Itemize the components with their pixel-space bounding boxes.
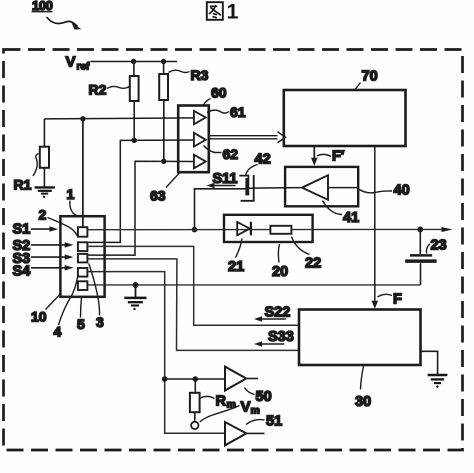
node junction left — [162, 376, 168, 382]
svg-text:21: 21 — [228, 259, 244, 275]
label S33 with arrow — [254, 329, 294, 347]
buffer 61 — [194, 111, 206, 124]
svg-text:R1: R1 — [14, 177, 32, 193]
svg-text:20: 20 — [272, 264, 288, 280]
svg-text:5: 5 — [77, 316, 85, 332]
label 5 — [77, 297, 85, 332]
label 42 — [246, 151, 271, 175]
label 62 — [204, 146, 239, 163]
wire S22 (pin 2 to block 30) — [87, 246, 299, 325]
svg-text:S1: S1 — [13, 222, 31, 238]
label 3 — [89, 264, 104, 330]
processing block 30 — [299, 310, 421, 410]
svg-text:V: V — [66, 54, 76, 71]
svg-text:F: F — [393, 292, 402, 308]
label 63 — [150, 173, 180, 204]
label 21 — [228, 239, 244, 275]
svg-text:40: 40 — [394, 183, 410, 199]
capacitor 23 — [405, 229, 436, 285]
label 4 — [54, 278, 78, 340]
svg-text:1: 1 — [67, 186, 75, 202]
pin contact 1 — [78, 227, 88, 237]
label Rm — [201, 393, 236, 410]
svg-text:63: 63 — [150, 188, 166, 204]
driver block 40 — [285, 167, 358, 206]
amplifier 41 (left pointing) — [285, 175, 358, 200]
svg-text:3: 3 — [96, 314, 104, 330]
ground (right of block 30) — [428, 375, 448, 388]
svg-text:10: 10 — [31, 308, 47, 324]
wire pin 4 to buffers — [87, 272, 225, 434]
label 41 — [323, 201, 360, 227]
svg-text:m: m — [251, 405, 260, 417]
svg-text:R: R — [216, 393, 227, 409]
svg-text:22: 22 — [305, 255, 321, 271]
resistor 20 — [270, 226, 291, 234]
label 10 — [31, 295, 60, 325]
label S2 with arrow — [13, 238, 74, 254]
svg-text:V: V — [241, 398, 251, 415]
label 50 — [245, 388, 272, 405]
label S22 with arrow — [254, 304, 290, 322]
pin contact 3 — [78, 254, 88, 263]
resistor R1 — [14, 119, 50, 193]
buffer 62 — [194, 133, 206, 147]
svg-text:S22: S22 — [265, 304, 291, 320]
label 2 — [39, 207, 78, 237]
label 23 — [426, 237, 446, 253]
svg-text:61: 61 — [230, 104, 246, 120]
signal F arrow (70 to 30) — [372, 146, 403, 309]
svg-text:30: 30 — [355, 394, 371, 410]
svg-text:S4: S4 — [13, 263, 31, 279]
label 20 — [272, 244, 288, 280]
pin contact 2 — [78, 242, 88, 251]
wire: amplifier 41 output to capacitor 42 — [247, 187, 285, 189]
wire: S11 injection (cap 42 to S1 line) — [195, 189, 247, 230]
ground (below R1) — [35, 187, 55, 198]
label S4 with arrow — [13, 263, 74, 279]
label 60 — [204, 85, 227, 106]
wire: Vref/R1 node to buffer 61 input — [44, 116, 194, 121]
filter block 22 — [224, 215, 313, 242]
label 22 — [292, 237, 322, 272]
label 1 — [67, 186, 79, 216]
title 图1 (hanzi drawn as strokes) — [207, 0, 239, 24]
wire S33 (pin 3 to block 30) — [87, 259, 299, 351]
svg-text:ref: ref — [77, 62, 90, 73]
wire: node to connector pin 1 (S1 column) — [82, 119, 84, 227]
label 100 (figure reference numeral) — [32, 0, 82, 30]
node S11 junction — [192, 227, 198, 233]
logic block 70 — [284, 69, 406, 147]
wire branch to buffer 50 — [165, 378, 225, 380]
output arrowhead right — [442, 227, 453, 232]
node junction Rm — [193, 376, 199, 382]
label 51 — [246, 413, 282, 429]
wire S1 line (pin 1 to output arrow) — [87, 228, 442, 230]
svg-text:70: 70 — [362, 69, 378, 85]
svg-text:4: 4 — [54, 323, 62, 339]
buffer 63 — [194, 155, 206, 169]
resistor Rm — [190, 379, 200, 422]
wire block 30 to ground — [421, 351, 438, 374]
svg-text:F′: F′ — [332, 149, 345, 165]
wire: buffer 62 input line — [87, 138, 193, 243]
node capacitor 23 tap — [417, 227, 423, 233]
label Vm — [200, 398, 260, 422]
svg-text:1: 1 — [227, 0, 239, 24]
ground (center, below pin-5 line) — [124, 285, 146, 310]
svg-text:2: 2 — [39, 207, 47, 223]
svg-text:51: 51 — [266, 413, 282, 429]
resistor R2 — [89, 62, 139, 141]
wire ground line (pin 5 to capacitor 23) — [87, 284, 420, 286]
svg-text:60: 60 — [211, 85, 227, 101]
signal F' arrow (70 to 40) — [311, 146, 345, 166]
terminal Vm (open circle) — [191, 422, 198, 429]
svg-text:S33: S33 — [268, 329, 294, 345]
label S1 with arrow — [13, 222, 59, 238]
buffer 50 — [225, 367, 258, 391]
node Vref — [66, 54, 178, 73]
svg-text:23: 23 — [431, 237, 447, 253]
svg-text:50: 50 — [256, 389, 272, 405]
svg-text:R2: R2 — [89, 82, 107, 98]
svg-text:62: 62 — [223, 146, 239, 162]
capacitor 42 — [239, 175, 253, 201]
wire: buffer 63 input line — [87, 159, 193, 256]
label 61 — [207, 104, 246, 120]
pin contact 5 — [78, 281, 88, 290]
connector block 10 — [60, 216, 104, 297]
label 40 — [359, 183, 410, 199]
buffer 51 — [225, 422, 265, 445]
bus arrow from 60 to 70 (double line open arrow) — [209, 132, 286, 143]
label S11 with arrow — [207, 171, 238, 189]
pin contact 4 — [78, 268, 88, 277]
svg-text:R3: R3 — [191, 67, 209, 83]
svg-text:41: 41 — [343, 210, 359, 226]
svg-text:S11: S11 — [213, 171, 238, 187]
node ground tap — [133, 282, 139, 288]
label S3 with arrow — [13, 251, 74, 267]
comparator block U60 — [178, 106, 209, 173]
resistor R3 — [159, 62, 208, 162]
diode 21 — [237, 222, 251, 236]
